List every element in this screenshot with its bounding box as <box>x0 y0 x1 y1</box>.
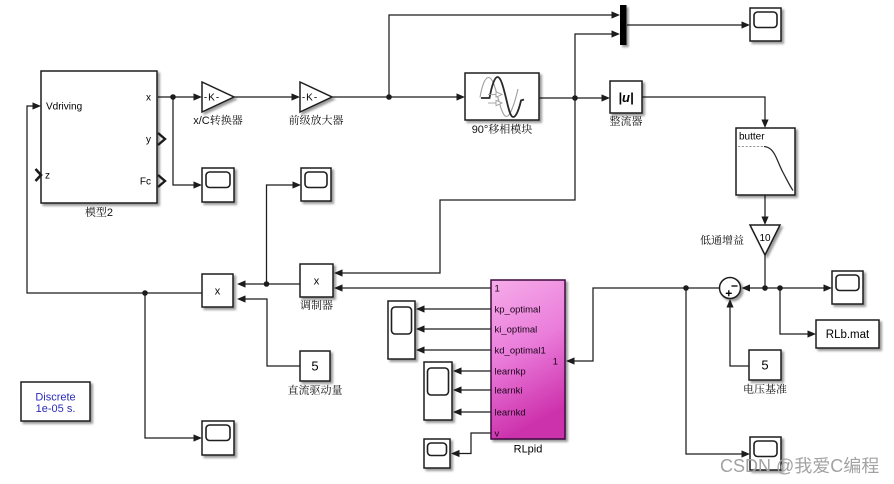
svg-text:butter: butter <box>739 132 765 143</box>
block scope modulator <box>301 168 331 201</box>
wire RLpid learnkp to scope <box>462 370 492 372</box>
wire sum output to RLpid input <box>575 288 720 361</box>
svg-text:z: z <box>45 171 50 182</box>
wire J7 up to scope <box>267 185 293 284</box>
wire RLpid ki_optimal to scope <box>425 328 492 330</box>
wire J3 up to mux input 2 <box>575 34 612 98</box>
wire J3 down to 调制器 input 1 <box>342 98 575 273</box>
svg-text:5: 5 <box>761 358 768 373</box>
wire constant 直流驱动量 to product input 2 <box>245 299 300 366</box>
wire product output feedback to 模型2 Vdriving <box>27 106 202 293</box>
svg-text:learnki: learnki <box>495 386 523 397</box>
block gain 前级放大器 -K- <box>300 82 332 112</box>
svg-text:x: x <box>215 286 221 298</box>
wire mux to scope <box>627 24 742 26</box>
svg-text:1: 1 <box>553 357 558 368</box>
svg-text:RLb.mat: RLb.mat <box>826 329 870 341</box>
wire gain x/C转换器 to gain 前级放大器 <box>234 96 292 98</box>
svg-text:learnkd: learnkd <box>495 408 526 419</box>
block gain 低通增益 10 <box>750 225 780 255</box>
node J4 junction at gain output <box>762 285 768 291</box>
block product 调制器 <box>300 264 333 297</box>
svg-text:10: 10 <box>759 233 771 244</box>
wire RLpid learnkd to scope <box>462 411 492 413</box>
label 整流器 <box>610 116 620 126</box>
label 调制器 <box>300 300 310 310</box>
svg-text:v: v <box>495 429 500 440</box>
block product feedback <box>202 274 233 307</box>
block abs 整流器 |u| <box>610 81 642 113</box>
block constant 直流驱动量 5 <box>300 351 330 381</box>
block scope right <box>832 271 863 304</box>
svg-text:Fc: Fc <box>140 177 151 188</box>
block sum 比较器 <box>720 278 741 299</box>
block constant 电压基准 5 <box>749 350 781 380</box>
wire RLpid kp_optimal to scope <box>425 308 492 310</box>
wire 90°移相模块 to 整流器 |u| <box>539 97 602 99</box>
block scope bottom-right <box>750 437 781 470</box>
svg-text:x/C: x/C <box>193 115 210 127</box>
wire J5 down to RLb.mat <box>780 288 808 334</box>
block scope top-right <box>750 8 781 41</box>
svg-text:-K-: -K- <box>204 93 220 104</box>
wire J8 down to bottom-left scope <box>145 293 194 438</box>
node J2 junction after 前级放大器 <box>386 94 392 100</box>
svg-text:1e-05 s.: 1e-05 s. <box>36 403 76 415</box>
wire RLpid output 1 to 调制器 input 2 <box>342 287 491 289</box>
svg-text:5: 5 <box>311 359 318 374</box>
svg-text:Vdriving: Vdriving <box>46 102 82 113</box>
svg-text:x: x <box>314 276 320 288</box>
node J3 junction on 移相 output <box>572 95 578 101</box>
block gain x/C转换器 -K- <box>202 82 234 112</box>
block 90°移相模块 phase shifter <box>465 73 539 120</box>
block scope mid-left <box>202 168 234 202</box>
wire 整流器 to butter filter <box>642 97 765 120</box>
wire 调制器 output to product <box>245 283 300 285</box>
svg-text:Discrete: Discrete <box>35 392 75 404</box>
watermark CSDN @我爱C编程 <box>720 456 879 476</box>
wire RLpid kd_optimal1 to scope <box>425 349 492 351</box>
wire 模型2.x to gain x/C转换器 <box>158 96 194 98</box>
wire RLpid learnki to scope <box>462 389 492 391</box>
wire J2 up to mux input 1 <box>389 15 612 97</box>
wire gain 前级放大器 to 90°移相模块 <box>332 96 457 98</box>
svg-text:-K-: -K- <box>302 93 318 104</box>
block to-file RLb.mat <box>816 320 879 348</box>
svg-text:90°: 90° <box>472 124 489 136</box>
node J1 junction on x output <box>170 94 176 100</box>
wire J1 branch to scope 位移示波器 <box>173 97 194 185</box>
svg-text:2: 2 <box>107 207 113 219</box>
block scope kp/ki/kd <box>388 301 415 359</box>
block scope learn <box>424 362 452 420</box>
svg-text:kd_optimal1: kd_optimal1 <box>495 346 546 357</box>
svg-text:x: x <box>146 93 151 104</box>
label 低通增益 <box>700 235 710 245</box>
block subsystem 模型2 <box>41 71 157 203</box>
svg-text:RLpid: RLpid <box>514 444 543 456</box>
block scope v <box>424 439 450 468</box>
block scope bottom-left <box>202 421 234 455</box>
svg-text:C: C <box>830 456 843 476</box>
wire sum input line from J4/J5 to scope <box>749 287 824 289</box>
label 电压基准 <box>744 384 753 394</box>
block RLpid controller subsystem <box>491 280 565 439</box>
wire RLpid v to small scope <box>460 433 492 454</box>
svg-text:learnkp: learnkp <box>495 367 526 378</box>
label 前级放大器 <box>289 115 299 125</box>
svg-text:|u|: |u| <box>618 90 633 105</box>
label 直流驱动量 <box>288 385 298 395</box>
svg-text:1: 1 <box>495 284 500 295</box>
block mux <box>620 5 627 45</box>
svg-text:kp_optimal: kp_optimal <box>495 305 541 316</box>
node J7 junction on 调制器 output <box>264 281 270 287</box>
block annotation Discrete 1e-05 s. <box>21 382 90 421</box>
svg-text:CSDN @: CSDN @ <box>720 456 794 476</box>
label 模型2 <box>85 207 96 217</box>
node J6 junction on sum output <box>683 285 689 291</box>
node J8 junction on feedback wire <box>142 290 148 296</box>
svg-text:y: y <box>146 135 151 146</box>
block butter low-pass filter <box>736 128 795 195</box>
svg-text:ki_optimal: ki_optimal <box>495 325 538 336</box>
wire constant 电压基准 to sum plus input <box>730 308 749 367</box>
wire J6 down to bottom-right scope <box>686 288 742 454</box>
wire butter to gain 低通增益 <box>764 195 766 217</box>
node J5 junction to RLb.mat <box>777 285 783 291</box>
wire gain 低通增益 down to node J4 <box>764 255 766 288</box>
